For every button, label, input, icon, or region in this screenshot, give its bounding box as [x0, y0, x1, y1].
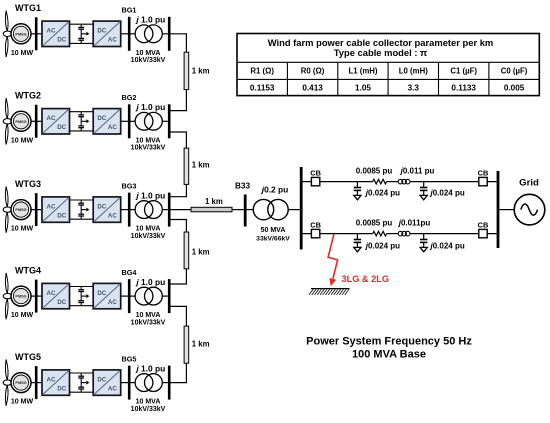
svg-text:10kV/33kV: 10kV/33kV — [131, 320, 166, 327]
svg-text:10 MW: 10 MW — [11, 399, 34, 406]
svg-text:PMSG: PMSG — [15, 208, 26, 212]
svg-text:0.1133: 0.1133 — [451, 84, 476, 93]
svg-text:WTG4: WTG4 — [15, 266, 41, 276]
svg-text:L0 (mH): L0 (mH) — [399, 67, 428, 76]
svg-text:10 MW: 10 MW — [11, 226, 34, 233]
svg-text:100 MVA Base: 100 MVA Base — [352, 349, 426, 361]
svg-text:j0.024 pu: j0.024 pu — [365, 241, 400, 250]
svg-text:PMSG: PMSG — [15, 32, 26, 36]
svg-text:AC: AC — [108, 37, 117, 44]
svg-text:j0.011 pu: j0.011 pu — [400, 166, 435, 175]
svg-text:B33: B33 — [235, 182, 250, 191]
svg-text:3LG & 2LG: 3LG & 2LG — [342, 274, 389, 284]
svg-text:1 km: 1 km — [192, 339, 210, 348]
svg-text:AC: AC — [47, 203, 56, 210]
svg-text:10 MVA: 10 MVA — [136, 137, 161, 144]
svg-text:BG2: BG2 — [121, 93, 136, 102]
svg-text:10 MW: 10 MW — [11, 50, 34, 57]
svg-text:WTG5: WTG5 — [15, 352, 41, 362]
svg-text:0.1153: 0.1153 — [250, 84, 275, 93]
svg-text:1 km: 1 km — [192, 160, 210, 169]
svg-text:AC: AC — [47, 115, 56, 122]
svg-text:BG3: BG3 — [121, 182, 136, 191]
svg-text:R0 (Ω): R0 (Ω) — [301, 67, 325, 76]
svg-text:AC: AC — [108, 299, 117, 306]
svg-text:Type cable model : π: Type cable model : π — [334, 47, 427, 58]
svg-text:0.005: 0.005 — [504, 84, 525, 93]
svg-text:j0.024 pu: j0.024 pu — [365, 189, 400, 198]
svg-text:AC: AC — [47, 28, 56, 35]
svg-text:j0.024 pu: j0.024 pu — [430, 189, 465, 198]
svg-text:10 MVA: 10 MVA — [136, 399, 161, 406]
svg-text:CB: CB — [478, 169, 489, 178]
svg-text:j 1.0 pu: j 1.0 pu — [135, 102, 165, 112]
svg-text:j 1.0 pu: j 1.0 pu — [135, 15, 165, 25]
svg-text:WTG2: WTG2 — [15, 91, 41, 101]
svg-text:10 MVA: 10 MVA — [136, 312, 161, 319]
svg-text:WTG1: WTG1 — [15, 3, 41, 13]
svg-text:10 MVA: 10 MVA — [136, 226, 161, 233]
svg-text:j 1.0 pu: j 1.0 pu — [135, 190, 165, 200]
svg-text:j0.011pu: j0.011pu — [398, 219, 431, 228]
svg-text:CB: CB — [310, 169, 321, 178]
svg-text:1 km: 1 km — [192, 247, 210, 256]
svg-text:BG4: BG4 — [121, 268, 137, 277]
svg-text:j0.024 pu: j0.024 pu — [430, 242, 465, 251]
svg-text:DC: DC — [57, 385, 66, 392]
svg-text:10kV/33kV: 10kV/33kV — [131, 406, 166, 413]
svg-text:PMSG: PMSG — [15, 120, 26, 124]
svg-text:0.413: 0.413 — [302, 84, 323, 93]
svg-text:10kV/33kV: 10kV/33kV — [131, 145, 166, 152]
svg-text:CB: CB — [310, 221, 321, 230]
svg-text:BG5: BG5 — [121, 355, 136, 364]
svg-text:AC: AC — [108, 124, 117, 131]
svg-text:AC: AC — [47, 376, 56, 383]
svg-text:j0.2 pu: j0.2 pu — [261, 185, 289, 195]
svg-text:PMSG: PMSG — [15, 381, 26, 385]
svg-text:j 1.0 pu: j 1.0 pu — [135, 277, 165, 287]
svg-text:DC: DC — [57, 124, 66, 131]
svg-text:10 MW: 10 MW — [11, 312, 34, 319]
svg-text:DC: DC — [97, 376, 106, 383]
svg-text:0.0085 pu: 0.0085 pu — [356, 166, 393, 175]
svg-text:1 km: 1 km — [192, 67, 210, 76]
svg-text:10kV/33kV: 10kV/33kV — [131, 233, 166, 240]
svg-text:R1 (Ω): R1 (Ω) — [250, 67, 274, 76]
svg-text:C0 (µF): C0 (µF) — [501, 67, 528, 76]
svg-text:10 MVA: 10 MVA — [136, 50, 161, 57]
svg-text:DC: DC — [97, 290, 106, 297]
svg-text:33kV/66kV: 33kV/66kV — [256, 235, 290, 242]
svg-text:WTG3: WTG3 — [15, 179, 41, 189]
svg-text:DC: DC — [57, 37, 66, 44]
svg-text:DC: DC — [97, 203, 106, 210]
svg-text:j 1.0 pu: j 1.0 pu — [135, 363, 165, 373]
svg-text:1 km: 1 km — [205, 197, 223, 206]
svg-text:BG1: BG1 — [121, 6, 136, 15]
svg-text:10kV/33kV: 10kV/33kV — [131, 57, 166, 64]
svg-text:50 MVA: 50 MVA — [261, 227, 286, 234]
svg-text:DC: DC — [57, 212, 66, 219]
svg-text:AC: AC — [108, 212, 117, 219]
svg-text:0.0085 pu: 0.0085 pu — [356, 219, 393, 228]
svg-text:DC: DC — [97, 115, 106, 122]
svg-text:AC: AC — [108, 385, 117, 392]
svg-text:1.05: 1.05 — [355, 84, 371, 93]
svg-text:Grid: Grid — [519, 177, 539, 188]
svg-text:CB: CB — [478, 221, 489, 230]
svg-text:DC: DC — [97, 28, 106, 35]
svg-text:Power System Frequency 50 Hz: Power System Frequency 50 Hz — [306, 336, 472, 348]
svg-text:10 MW: 10 MW — [11, 137, 34, 144]
svg-text:AC: AC — [47, 290, 56, 297]
svg-text:3.3: 3.3 — [408, 84, 420, 93]
svg-text:PMSG: PMSG — [15, 295, 26, 299]
svg-text:C1 (µF): C1 (µF) — [450, 67, 477, 76]
svg-text:L1 (mH): L1 (mH) — [348, 67, 377, 76]
svg-text:DC: DC — [57, 299, 66, 306]
